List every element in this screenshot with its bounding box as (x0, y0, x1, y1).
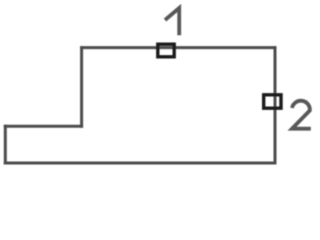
pin number label 2 (292, 101, 311, 129)
wire: step horizontal edge of component outline (5, 125, 81, 128)
pad square pin 2 (264, 95, 281, 108)
wire: step vertical edge of component outline (80, 48, 83, 127)
wire: top edge of component outline (82, 46, 275, 49)
wire: bottom edge of component outline (5, 162, 275, 165)
wire: lower-left edge of component outline (4, 126, 7, 163)
wire: right edge of component outline (274, 48, 277, 163)
pin number label 1 (165, 8, 179, 35)
pad square pin 1 (158, 44, 174, 57)
